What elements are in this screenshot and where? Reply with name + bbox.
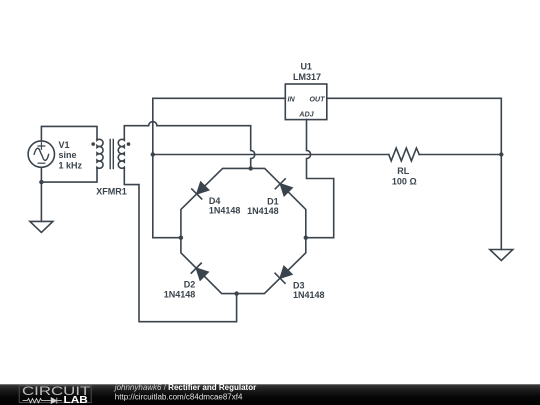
junction IN wire / horizontal: [151, 152, 155, 156]
svg-text:LM317: LM317: [293, 72, 321, 82]
diode D2: [191, 263, 209, 281]
diode D3: [275, 265, 293, 283]
diode D1: [275, 179, 293, 197]
svg-text:1N4148: 1N4148: [247, 206, 279, 216]
V1 plus sign: [38, 143, 45, 150]
node bridge left: [179, 236, 183, 240]
wire ADJ pin detour to bridge right node with hop: [306, 120, 334, 238]
V1 sine symbol: [34, 148, 48, 160]
secondary phase dot: [127, 142, 131, 146]
svg-text:LAB: LAB: [64, 395, 88, 405]
wire V1 top to primary top: [41, 126, 97, 140]
svg-text:U1: U1: [300, 61, 312, 71]
junction output node: [499, 152, 503, 156]
svg-text:OUT: OUT: [309, 94, 325, 103]
svg-text:RL: RL: [397, 166, 409, 176]
logo border: [19, 385, 91, 402]
ground (right): [490, 250, 513, 261]
svg-text:V1: V1: [59, 140, 70, 150]
node bridge bottom: [234, 291, 238, 295]
logo circuit glyph: resistor and diode: [23, 398, 62, 404]
svg-text:D3: D3: [293, 281, 305, 291]
svg-text:http://circuitlab.com/c84dmcae: http://circuitlab.com/c84dmcae87xf4: [115, 393, 243, 402]
primary phase dot: [91, 142, 95, 146]
svg-text:D4: D4: [209, 196, 221, 206]
wire long horizontal to resistor: [153, 154, 389, 156]
op-amp box U1 LM317: [285, 84, 327, 120]
transformer core: [110, 140, 113, 169]
wire secondary bottom to bridge bottom: [124, 168, 236, 321]
svg-text:ADJ: ADJ: [298, 110, 314, 119]
svg-text:1N4148: 1N4148: [209, 206, 241, 216]
wire IN pin to bridge left node: [153, 98, 285, 237]
diode D4: [192, 181, 210, 199]
svg-text:sine: sine: [59, 150, 77, 160]
wire secondary top to bridge top with hop over vertical: [124, 122, 255, 169]
diode bridge octagon: [181, 168, 306, 293]
resistor RL zigzag: [389, 148, 419, 161]
junction V1/primary: [39, 180, 43, 184]
transformer XFMR1 primary coil: [97, 139, 103, 168]
svg-text:1N4148: 1N4148: [164, 289, 196, 299]
svg-text:XFMR1: XFMR1: [96, 186, 127, 196]
transformer XFMR1 secondary coil: [118, 139, 124, 168]
svg-text:IN: IN: [288, 94, 296, 103]
wire V1 bottom to ground: [40, 167, 42, 221]
svg-text:D2: D2: [184, 280, 196, 290]
node bridge top: [249, 166, 253, 170]
ground (left): [30, 221, 53, 232]
svg-text:johnnyhawk6 / Rectifier and Re: johnnyhawk6 / Rectifier and Regulator: [114, 383, 256, 392]
svg-text:100 Ω: 100 Ω: [392, 176, 417, 186]
V1 minus sign: [38, 162, 45, 164]
svg-text:1 kHz: 1 kHz: [59, 160, 83, 170]
node bridge right: [304, 236, 308, 240]
wire resistor right to output node: [419, 154, 501, 156]
wire branch to primary bottom: [41, 168, 97, 182]
svg-text:D1: D1: [267, 196, 279, 206]
voltage source V1: [28, 141, 54, 167]
svg-text:1N4148: 1N4148: [293, 290, 325, 300]
wire OUT pin to right rail: [327, 98, 502, 249]
footer bar: [0, 384, 540, 405]
